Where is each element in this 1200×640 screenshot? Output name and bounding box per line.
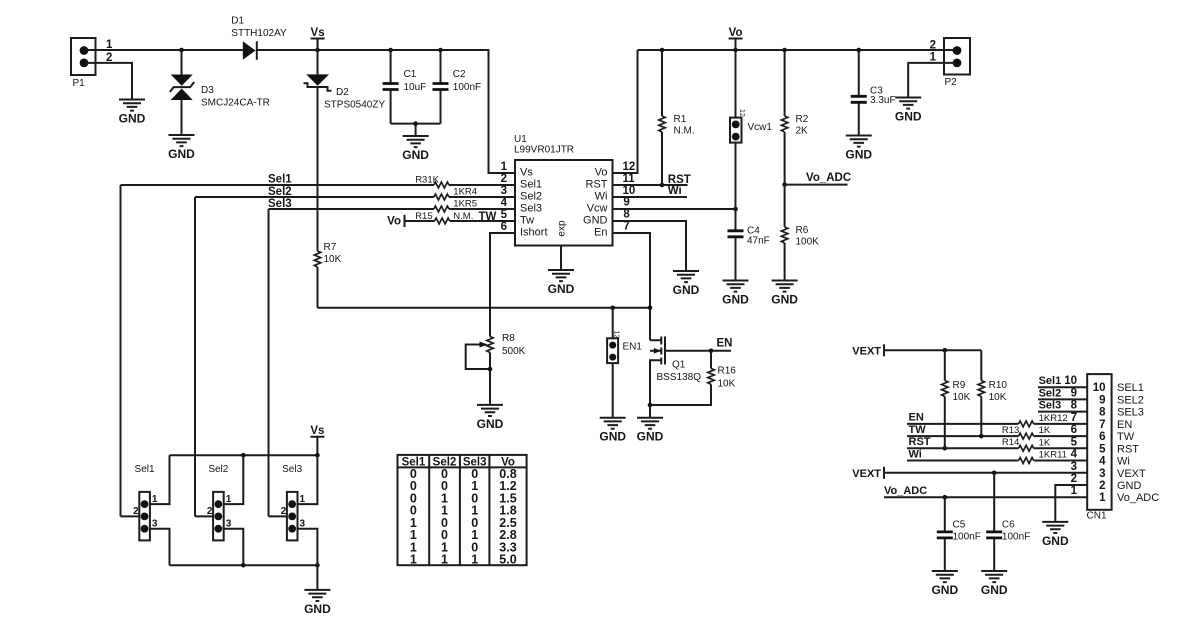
svg-text:EN: EN xyxy=(1117,419,1132,431)
svg-text:R7: R7 xyxy=(324,242,337,253)
node bottom rail Sel3 xyxy=(315,563,320,568)
svg-text:TW: TW xyxy=(479,211,497,223)
svg-text:1: 1 xyxy=(501,161,508,173)
wire GND pin8 xyxy=(613,221,687,271)
svg-text:3: 3 xyxy=(1099,468,1105,480)
svg-text:47nF: 47nF xyxy=(747,236,770,247)
ground C5 xyxy=(931,571,958,597)
wire CN1 pin10 Sel1 stub xyxy=(1038,386,1087,388)
wire En pin7 xyxy=(613,233,651,340)
resistor R14 1K xyxy=(1002,437,1051,451)
svg-text:SMCJ24CA-TR: SMCJ24CA-TR xyxy=(201,98,270,109)
resistor R16 xyxy=(650,351,736,405)
svg-text:Sel2: Sel2 xyxy=(520,191,542,203)
wire Vs rail P1 to D1 xyxy=(86,49,243,51)
svg-text:N.M.: N.M. xyxy=(453,211,473,222)
svg-text:CN1: CN1 xyxy=(1087,510,1107,521)
svg-text:Wi: Wi xyxy=(595,191,608,203)
svg-text:P2: P2 xyxy=(945,77,958,88)
svg-text:R2: R2 xyxy=(796,114,809,125)
wire Vo_ADC stub xyxy=(785,184,848,186)
svg-text:VEXT: VEXT xyxy=(1117,468,1146,480)
node top rail Sel3 xyxy=(315,453,320,458)
svg-text:11: 11 xyxy=(623,173,636,185)
svg-text:RST: RST xyxy=(668,174,691,186)
svg-text:3: 3 xyxy=(300,518,306,529)
svg-text:9: 9 xyxy=(623,197,629,209)
node Vcw junction xyxy=(733,207,738,212)
svg-text:Tw: Tw xyxy=(520,215,534,227)
svg-text:EN: EN xyxy=(909,412,924,424)
svg-text:6: 6 xyxy=(501,221,507,233)
ground U1 exp xyxy=(548,270,575,296)
svg-text:U1: U1 xyxy=(514,134,527,145)
svg-text:GND: GND xyxy=(583,215,608,227)
resistor R2 xyxy=(781,50,808,185)
ground P2 xyxy=(895,98,922,124)
node Vo junction Vcw1 xyxy=(733,48,738,53)
node Vo_ADC junction C5 xyxy=(943,495,948,500)
svg-text:1KR4: 1KR4 xyxy=(453,187,477,198)
diode D1 xyxy=(231,16,287,60)
net label Vo top xyxy=(729,27,743,50)
wire Sel2 line pin3 xyxy=(195,197,515,516)
resistor R10 xyxy=(978,350,1007,436)
svg-text:VEXT: VEXT xyxy=(852,345,881,357)
resistor R9 xyxy=(942,350,971,448)
svg-text:10: 10 xyxy=(1064,375,1077,387)
ground C4 xyxy=(722,281,749,307)
wire Sel1 line pin2 xyxy=(121,185,516,516)
ground D3 xyxy=(168,135,195,161)
svg-text:8: 8 xyxy=(623,209,630,221)
resistor R15 N.M. xyxy=(415,211,473,224)
wire CN1 pin3 VEXT xyxy=(884,472,1087,474)
svg-text:R10: R10 xyxy=(989,380,1008,391)
wire VEXT to R9 R10 xyxy=(884,349,981,351)
CN1 inner pin numbers xyxy=(1093,382,1106,504)
connector CN1 body xyxy=(1087,374,1112,521)
node EN junction R16 xyxy=(709,349,714,354)
ground R8 xyxy=(477,405,504,431)
wire Ishort pin6 to R8 xyxy=(490,233,515,337)
wire CN1 pin2 GND xyxy=(1055,485,1087,522)
svg-text:R15: R15 xyxy=(415,211,432,222)
wire D2 branch through R7 xyxy=(317,39,319,308)
svg-text:Sel3: Sel3 xyxy=(520,203,542,215)
svg-text:3: 3 xyxy=(152,518,158,529)
wire P2 pin1 to GND xyxy=(908,63,955,98)
U1 right pin names xyxy=(583,167,608,239)
svg-text:1: 1 xyxy=(441,553,448,567)
svg-text:9: 9 xyxy=(1071,387,1077,399)
svg-text:RST: RST xyxy=(909,436,931,448)
node rail junction EN1 xyxy=(610,306,615,311)
wire Sel3 line pin4 xyxy=(269,209,516,516)
svg-text:7: 7 xyxy=(623,221,629,233)
svg-text:VEXT: VEXT xyxy=(852,468,881,480)
connector P1 xyxy=(71,38,113,89)
svg-text:D1: D1 xyxy=(231,16,244,27)
svg-text:Vo: Vo xyxy=(595,167,608,179)
svg-text:exp: exp xyxy=(557,220,568,237)
svg-text:R31K: R31K xyxy=(415,175,439,186)
svg-text:SEL2: SEL2 xyxy=(1117,394,1144,406)
svg-text:SEL3: SEL3 xyxy=(1117,407,1144,419)
svg-text:Vo_ADC: Vo_ADC xyxy=(1117,492,1159,504)
svg-text:Sel3: Sel3 xyxy=(268,198,292,210)
svg-text:R8: R8 xyxy=(502,333,515,344)
ground CN1 xyxy=(1042,522,1069,548)
svg-text:3: 3 xyxy=(1071,461,1077,473)
svg-text:10K: 10K xyxy=(324,254,342,265)
U1 exp pad wire xyxy=(560,246,562,271)
node Vs junction C1 xyxy=(388,48,393,53)
svg-text:Vo: Vo xyxy=(387,216,401,228)
ground R6 xyxy=(771,281,798,307)
svg-text:SEL1: SEL1 xyxy=(1117,382,1144,394)
net label Vs top xyxy=(311,27,325,50)
resistor R6 xyxy=(781,185,819,281)
wire CN1 pin4 Wi xyxy=(907,460,1087,462)
wire Wi pin10 xyxy=(613,196,688,198)
svg-text:1: 1 xyxy=(300,494,306,505)
svg-text:Sel1: Sel1 xyxy=(268,174,292,186)
svg-text:Sel3: Sel3 xyxy=(282,464,302,475)
svg-text:6: 6 xyxy=(1071,424,1077,436)
svg-text:4: 4 xyxy=(501,197,508,209)
svg-text:12: 12 xyxy=(623,161,636,173)
capacitor C4 xyxy=(728,209,770,281)
jumper Sel3 xyxy=(269,455,318,565)
potentiometer R8 xyxy=(466,333,526,405)
svg-text:Sel3: Sel3 xyxy=(1039,400,1062,412)
svg-text:Wi: Wi xyxy=(909,448,922,460)
svg-text:1K: 1K xyxy=(1039,425,1051,436)
svg-text:1K: 1K xyxy=(1039,437,1051,448)
svg-text:Vcw1: Vcw1 xyxy=(748,122,773,133)
wire jumper bottom rail xyxy=(170,564,318,566)
jumper Sel1 xyxy=(121,455,170,565)
svg-text:3: 3 xyxy=(501,185,507,197)
svg-text:1: 1 xyxy=(1071,485,1078,497)
svg-text:Sel2: Sel2 xyxy=(208,464,228,475)
wire Tw pin5 xyxy=(405,220,516,222)
svg-text:1: 1 xyxy=(152,494,158,505)
svg-text:Sel1: Sel1 xyxy=(1039,375,1062,387)
svg-text:10: 10 xyxy=(1093,382,1106,394)
transistor Q1 xyxy=(650,337,701,406)
svg-text:8: 8 xyxy=(1071,400,1078,412)
wire CN1 pin5 RST xyxy=(907,447,1087,449)
svg-text:10: 10 xyxy=(623,185,636,197)
svg-text:3: 3 xyxy=(226,518,232,529)
wire P1 pin2 to GND xyxy=(86,63,132,100)
resistor R3 1K xyxy=(415,175,449,188)
wire jumper top rail xyxy=(170,454,318,456)
resistor R1 N.M. xyxy=(659,50,695,185)
svg-text:5.0: 5.0 xyxy=(499,553,516,567)
capacitor C6 xyxy=(986,473,1030,571)
connector P2 xyxy=(930,38,970,88)
capacitor C2 xyxy=(433,50,482,124)
node Vo junction R1 xyxy=(660,48,665,53)
svg-text:1: 1 xyxy=(410,553,417,567)
U1 right pin numbers xyxy=(623,161,636,233)
svg-text:2: 2 xyxy=(1071,473,1077,485)
svg-text:Ishort: Ishort xyxy=(520,227,548,239)
net label Vo at R15 xyxy=(387,215,404,228)
svg-text:12: 12 xyxy=(613,331,620,339)
wire RST pin11 xyxy=(613,184,688,186)
ground Q1 xyxy=(637,418,664,444)
svg-text:Vo: Vo xyxy=(729,27,743,39)
svg-text:2: 2 xyxy=(1099,480,1105,492)
svg-text:Vcw: Vcw xyxy=(587,203,608,215)
svg-text:1: 1 xyxy=(930,52,937,64)
CN1 right pin labels xyxy=(1117,382,1159,504)
svg-text:En: En xyxy=(594,227,607,239)
wire Q1 gate to EN xyxy=(665,350,731,352)
node C1C2 gnd junction xyxy=(413,121,418,126)
svg-text:5: 5 xyxy=(501,209,508,221)
svg-text:TW: TW xyxy=(1117,431,1135,443)
node bottom rail Sel2 xyxy=(241,563,246,568)
svg-text:Vs: Vs xyxy=(520,167,533,179)
svg-text:2: 2 xyxy=(281,506,287,517)
svg-text:100nF: 100nF xyxy=(1002,531,1030,542)
svg-text:500K: 500K xyxy=(502,346,526,357)
table Vo selection xyxy=(398,455,527,567)
node Q1 source junction xyxy=(648,403,653,408)
svg-text:100K: 100K xyxy=(796,237,820,248)
wire CN1 pin1 Vo_ADC xyxy=(884,496,1087,498)
capacitor C3 xyxy=(851,50,896,136)
capacitor C1 xyxy=(383,50,427,124)
svg-text:6: 6 xyxy=(1099,431,1105,443)
node RST junction R1 xyxy=(660,183,665,188)
wire bottom rail xyxy=(318,307,651,309)
jumper EN1 xyxy=(607,308,642,418)
svg-text:100nF: 100nF xyxy=(953,531,981,542)
svg-text:P1: P1 xyxy=(73,78,86,89)
svg-text:4: 4 xyxy=(1099,456,1106,468)
net label Vs bottom xyxy=(310,425,324,455)
svg-text:Sel1: Sel1 xyxy=(135,464,155,475)
resistor R12 1K xyxy=(1019,413,1068,427)
svg-text:C6: C6 xyxy=(1002,520,1015,531)
svg-text:Vo_ADC: Vo_ADC xyxy=(884,485,927,497)
node rail junction Q1 xyxy=(648,306,653,311)
node Vo_ADC junction xyxy=(782,182,787,187)
svg-text:Vs: Vs xyxy=(310,425,324,437)
svg-text:TW: TW xyxy=(909,424,927,436)
svg-text:EN1: EN1 xyxy=(623,341,643,352)
svg-text:R6: R6 xyxy=(796,225,809,236)
svg-text:STPS0540ZY: STPS0540ZY xyxy=(324,100,385,111)
svg-text:Sel1: Sel1 xyxy=(520,179,542,191)
wire D3 branch xyxy=(181,50,183,135)
capacitor C5 xyxy=(937,497,981,571)
svg-text:L99VR01JTR: L99VR01JTR xyxy=(514,145,574,156)
svg-text:1KR12: 1KR12 xyxy=(1039,413,1068,424)
svg-text:1KR11: 1KR11 xyxy=(1039,450,1067,461)
node Vs junction D2 xyxy=(315,48,320,53)
wire CN1 pin6 TW xyxy=(907,435,1087,437)
diode D3 xyxy=(170,75,270,109)
U1 left pin numbers xyxy=(501,161,508,233)
ground P1 xyxy=(119,100,146,126)
U1 left pin names xyxy=(520,167,548,239)
svg-text:10uF: 10uF xyxy=(404,82,427,93)
svg-text:BSS138Q: BSS138Q xyxy=(657,372,702,383)
svg-text:R13: R13 xyxy=(1002,425,1019,436)
svg-text:STTH102AY: STTH102AY xyxy=(231,28,287,39)
resistor R7 xyxy=(314,242,341,267)
svg-text:9: 9 xyxy=(1099,394,1105,406)
diode D2 xyxy=(304,74,386,110)
svg-text:C5: C5 xyxy=(953,520,966,531)
svg-text:D2: D2 xyxy=(336,87,349,98)
svg-text:10K: 10K xyxy=(989,392,1007,403)
wire Vcw pin9 xyxy=(613,208,736,210)
svg-text:1: 1 xyxy=(471,553,478,567)
ground Sel block xyxy=(304,590,331,616)
wire Q1 source to GND xyxy=(649,405,651,418)
node Vs junction D3 xyxy=(179,48,184,53)
svg-text:Q1: Q1 xyxy=(672,360,686,371)
wire bottom rail to GND xyxy=(316,565,318,590)
ground EN1 xyxy=(599,418,626,444)
svg-text:2: 2 xyxy=(207,506,213,517)
node R8 wiper junction xyxy=(488,367,493,372)
svg-text:Vo_ADC: Vo_ADC xyxy=(806,172,851,184)
resistor R11 1K xyxy=(1019,450,1067,464)
wire CN1 pin8 Sel3 stub xyxy=(1038,411,1087,413)
ground C1C2 xyxy=(402,136,429,162)
svg-text:R14: R14 xyxy=(1002,437,1019,448)
wire Vs rail D1 to pin1 riser xyxy=(257,50,515,173)
ground C3 xyxy=(845,136,872,162)
svg-text:5: 5 xyxy=(1099,443,1106,455)
svg-text:R9: R9 xyxy=(953,380,966,391)
svg-text:Wi: Wi xyxy=(668,185,682,197)
op-amp U1 body xyxy=(514,134,613,246)
svg-text:RST: RST xyxy=(586,179,608,191)
svg-text:Sel2: Sel2 xyxy=(268,186,292,198)
svg-text:7: 7 xyxy=(1099,419,1105,431)
node Vo junction C3 xyxy=(856,48,861,53)
wire C1 C2 join xyxy=(391,124,441,136)
node VEXT junction R9 xyxy=(943,348,948,353)
svg-text:3.3uF: 3.3uF xyxy=(870,95,896,106)
net label VEXT top xyxy=(852,344,884,357)
svg-text:8: 8 xyxy=(1099,407,1106,419)
svg-text:Vs: Vs xyxy=(311,27,325,39)
resistor R13 1K xyxy=(1002,425,1051,439)
jumper Vcw1 xyxy=(730,50,772,209)
svg-text:R16: R16 xyxy=(718,366,737,377)
wire CN1 pin7 EN xyxy=(907,423,1087,425)
wire Vo rail xyxy=(638,49,956,51)
ground pin8 xyxy=(673,271,700,297)
svg-text:RST: RST xyxy=(1117,443,1139,455)
node Vs junction C2 xyxy=(438,48,443,53)
svg-text:4: 4 xyxy=(1071,449,1078,461)
svg-text:Sel2: Sel2 xyxy=(1039,387,1062,399)
svg-text:EN: EN xyxy=(717,338,733,350)
svg-text:R1: R1 xyxy=(674,114,687,125)
svg-text:Wi: Wi xyxy=(1117,456,1130,468)
svg-text:7: 7 xyxy=(1071,412,1077,424)
svg-text:2: 2 xyxy=(133,506,139,517)
ground C6 xyxy=(981,571,1008,597)
svg-text:C2: C2 xyxy=(453,69,466,80)
svg-text:GND: GND xyxy=(1117,480,1142,492)
svg-text:N.M.: N.M. xyxy=(674,126,695,137)
svg-text:5: 5 xyxy=(1071,436,1078,448)
svg-text:100nF: 100nF xyxy=(453,82,481,93)
jumper Sel2 xyxy=(195,455,243,565)
svg-text:12: 12 xyxy=(738,109,745,117)
resistor R4 1K xyxy=(434,187,477,200)
svg-text:1KR5: 1KR5 xyxy=(453,199,477,210)
node TW junction R10 xyxy=(979,434,984,439)
svg-text:10K: 10K xyxy=(953,392,971,403)
wire pin12 to Vo rail xyxy=(613,50,638,173)
svg-text:2: 2 xyxy=(930,40,936,52)
resistor R5 1K xyxy=(434,199,477,212)
node Vo junction R2 xyxy=(782,48,787,53)
svg-text:D3: D3 xyxy=(201,85,214,96)
svg-text:1: 1 xyxy=(1099,492,1106,504)
svg-text:10K: 10K xyxy=(718,379,736,390)
svg-text:1: 1 xyxy=(226,494,232,505)
svg-text:2K: 2K xyxy=(796,126,809,137)
svg-text:2: 2 xyxy=(501,173,507,185)
wire CN1 pin9 Sel2 stub xyxy=(1038,398,1087,400)
svg-text:C1: C1 xyxy=(404,69,417,80)
node top rail Sel2 xyxy=(241,453,246,458)
node RST junction R9 xyxy=(943,446,948,451)
node VEXT junction C6 xyxy=(992,471,997,476)
net label VEXT pin3 xyxy=(852,467,884,480)
